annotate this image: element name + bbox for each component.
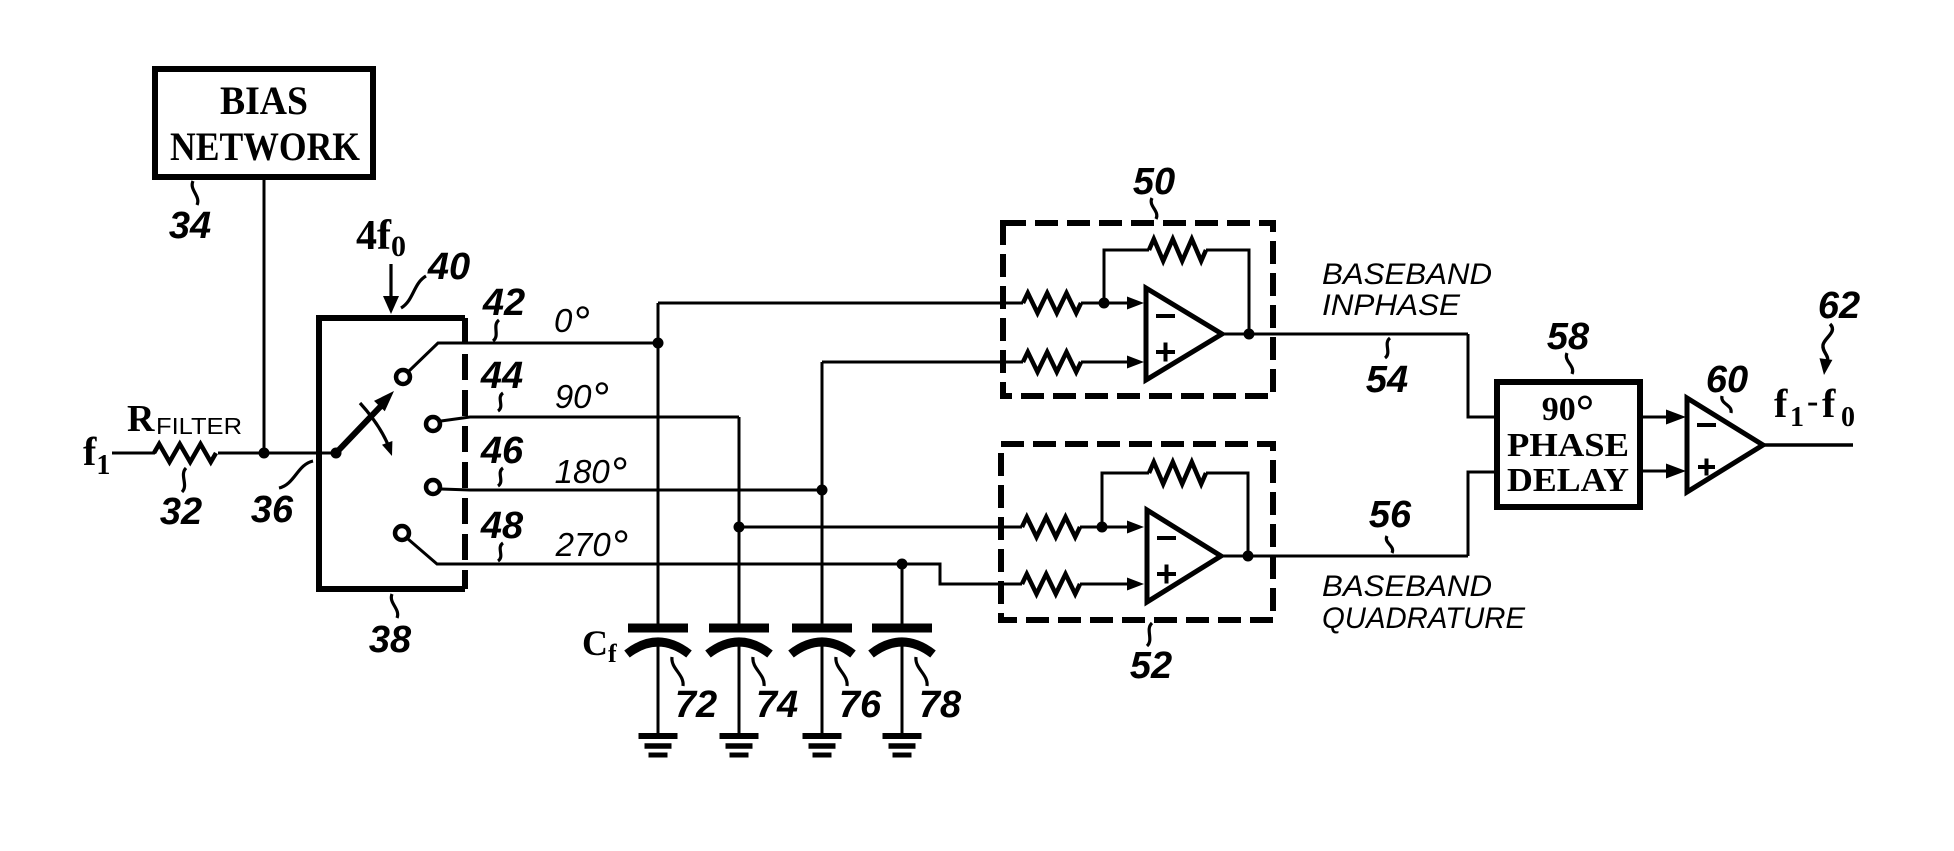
- svg-text:R: R: [127, 398, 155, 440]
- svg-text:BIAS: BIAS: [220, 78, 308, 123]
- svg-text:PHASE: PHASE: [1507, 427, 1629, 464]
- svg-text:76: 76: [839, 684, 882, 726]
- svg-text:72: 72: [675, 684, 717, 726]
- svg-text:44: 44: [480, 355, 523, 397]
- svg-text:40: 40: [427, 246, 470, 288]
- svg-text:42: 42: [482, 282, 525, 324]
- svg-text:NETWORK: NETWORK: [170, 124, 360, 169]
- svg-text:INPHASE: INPHASE: [1322, 289, 1461, 322]
- svg-text:56: 56: [1369, 494, 1412, 536]
- svg-text:48: 48: [480, 505, 524, 547]
- svg-text:36: 36: [251, 489, 294, 531]
- svg-text:60: 60: [1706, 359, 1748, 401]
- svg-text:78: 78: [919, 684, 962, 726]
- svg-text:38: 38: [369, 619, 412, 661]
- svg-text:32: 32: [160, 491, 202, 533]
- svg-text:34: 34: [169, 205, 211, 247]
- svg-text:54: 54: [1366, 359, 1408, 401]
- svg-text:DELAY: DELAY: [1507, 462, 1629, 499]
- svg-text:BASEBAND: BASEBAND: [1322, 570, 1492, 603]
- svg-text:74: 74: [756, 684, 798, 726]
- svg-text:58: 58: [1547, 316, 1590, 358]
- svg-text:46: 46: [480, 430, 524, 472]
- svg-text:52: 52: [1130, 645, 1172, 687]
- svg-text:QUADRATURE: QUADRATURE: [1322, 602, 1526, 635]
- svg-text:FILTER: FILTER: [156, 413, 242, 439]
- svg-text:BASEBAND: BASEBAND: [1322, 258, 1492, 291]
- svg-text:62: 62: [1818, 285, 1860, 327]
- svg-text:50: 50: [1133, 161, 1175, 203]
